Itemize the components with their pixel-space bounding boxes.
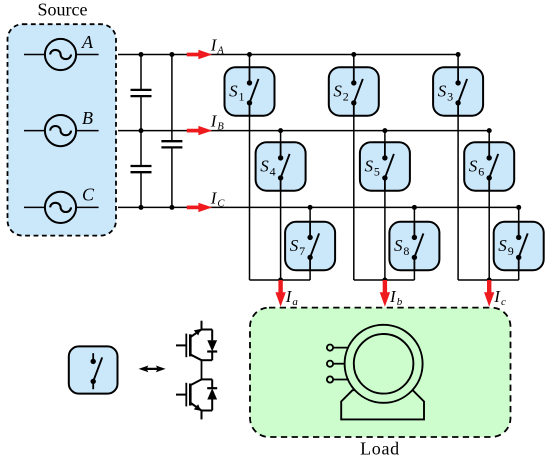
- motor terminals: [327, 345, 349, 383]
- IGBT Q2 (bottom): [176, 379, 212, 419]
- switch S6: [464, 142, 514, 191]
- legend double arrow: [139, 366, 166, 373]
- switch S1: [225, 67, 275, 116]
- source box: [8, 24, 117, 235]
- svg-text:3: 3: [447, 90, 453, 104]
- legend switch box: [69, 346, 118, 393]
- svg-text:2: 2: [343, 90, 349, 104]
- svg-text:6: 6: [478, 165, 484, 179]
- svg-text:1: 1: [239, 90, 245, 104]
- switch S5: [360, 142, 410, 191]
- capacitor C1 (A-B): [131, 90, 152, 96]
- wire stem S9 column: [518, 207, 520, 280]
- switch S7: [285, 222, 335, 270]
- AC source B: [24, 115, 99, 146]
- wire phase A: [118, 54, 458, 56]
- junction dots output buses: [278, 278, 492, 283]
- AC source C: [24, 192, 99, 223]
- arrow Ia: [275, 280, 285, 307]
- svg-text:5: 5: [374, 165, 380, 179]
- motor inner circle: [354, 334, 414, 394]
- svg-text:S: S: [498, 236, 507, 255]
- switch S3: [433, 67, 483, 116]
- wire stem S7 column: [309, 207, 311, 280]
- wire stem S4 column: [280, 131, 282, 280]
- wire stem S2 column: [353, 55, 355, 281]
- svg-text:S: S: [394, 236, 403, 255]
- IGBT Q1 bars: [189, 334, 192, 356]
- svg-text:Load: Load: [360, 439, 400, 459]
- junction dots line B: [139, 128, 492, 133]
- wire output bus c: [458, 279, 519, 281]
- wire output bus b: [354, 279, 415, 281]
- switch S4: [256, 142, 306, 191]
- capacitor C3 (A-C): [161, 141, 182, 147]
- svg-text:4: 4: [270, 165, 276, 179]
- svg-text:A: A: [216, 46, 224, 57]
- IGBT Q1 emitter arrow: [194, 329, 201, 336]
- IGBT Q2 bars: [189, 384, 192, 406]
- svg-text:C: C: [82, 185, 95, 205]
- arrow Ib: [380, 280, 390, 307]
- svg-text:8: 8: [403, 244, 409, 258]
- svg-text:C: C: [217, 198, 225, 209]
- wire stem S6 column: [488, 131, 490, 280]
- wire stem S1 column: [249, 55, 251, 281]
- wire output bus a: [250, 279, 311, 281]
- motor body: [345, 325, 423, 403]
- wire stem S3 column: [457, 55, 459, 281]
- svg-text:S: S: [469, 157, 478, 176]
- wire filter column 2: [171, 55, 173, 208]
- motor pedestal: [341, 390, 424, 419]
- load box: [250, 308, 511, 437]
- junction dots line A: [139, 52, 461, 57]
- svg-text:S: S: [290, 236, 299, 255]
- wire middle link: [201, 360, 203, 379]
- capacitor C2 (B-C): [131, 166, 152, 172]
- IGBT Q2 emitter arrow: [194, 404, 201, 411]
- diode D2: [207, 388, 217, 399]
- arrow Ic: [484, 280, 494, 307]
- arrow IB: [187, 126, 212, 135]
- IGBT Q1 (top): [176, 321, 212, 361]
- svg-text:B: B: [82, 108, 93, 128]
- svg-text:7: 7: [299, 244, 305, 258]
- svg-text:b: b: [397, 296, 403, 308]
- AC source A: [24, 39, 99, 70]
- arrow IC: [187, 203, 212, 212]
- diode D1: [207, 340, 217, 351]
- switch S9: [494, 222, 544, 270]
- wire stem S5 column: [384, 131, 386, 280]
- svg-text:a: a: [292, 296, 298, 308]
- wire phase C: [118, 206, 519, 208]
- switch S2: [329, 67, 379, 116]
- svg-text:S: S: [365, 157, 374, 176]
- svg-text:S: S: [260, 157, 269, 176]
- switch S8: [389, 222, 439, 270]
- svg-text:S: S: [229, 82, 238, 101]
- svg-text:Source: Source: [38, 0, 88, 19]
- junction dots line C: [139, 205, 522, 210]
- wire filter column 1: [140, 55, 142, 208]
- svg-text:S: S: [438, 82, 447, 101]
- svg-text:9: 9: [508, 244, 514, 258]
- svg-text:B: B: [217, 122, 224, 133]
- svg-text:c: c: [501, 296, 506, 308]
- arrow IA: [187, 50, 212, 59]
- svg-text:A: A: [81, 32, 94, 52]
- wire phase B: [118, 130, 489, 132]
- wire stem S8 column: [413, 207, 415, 280]
- svg-text:S: S: [333, 82, 342, 101]
